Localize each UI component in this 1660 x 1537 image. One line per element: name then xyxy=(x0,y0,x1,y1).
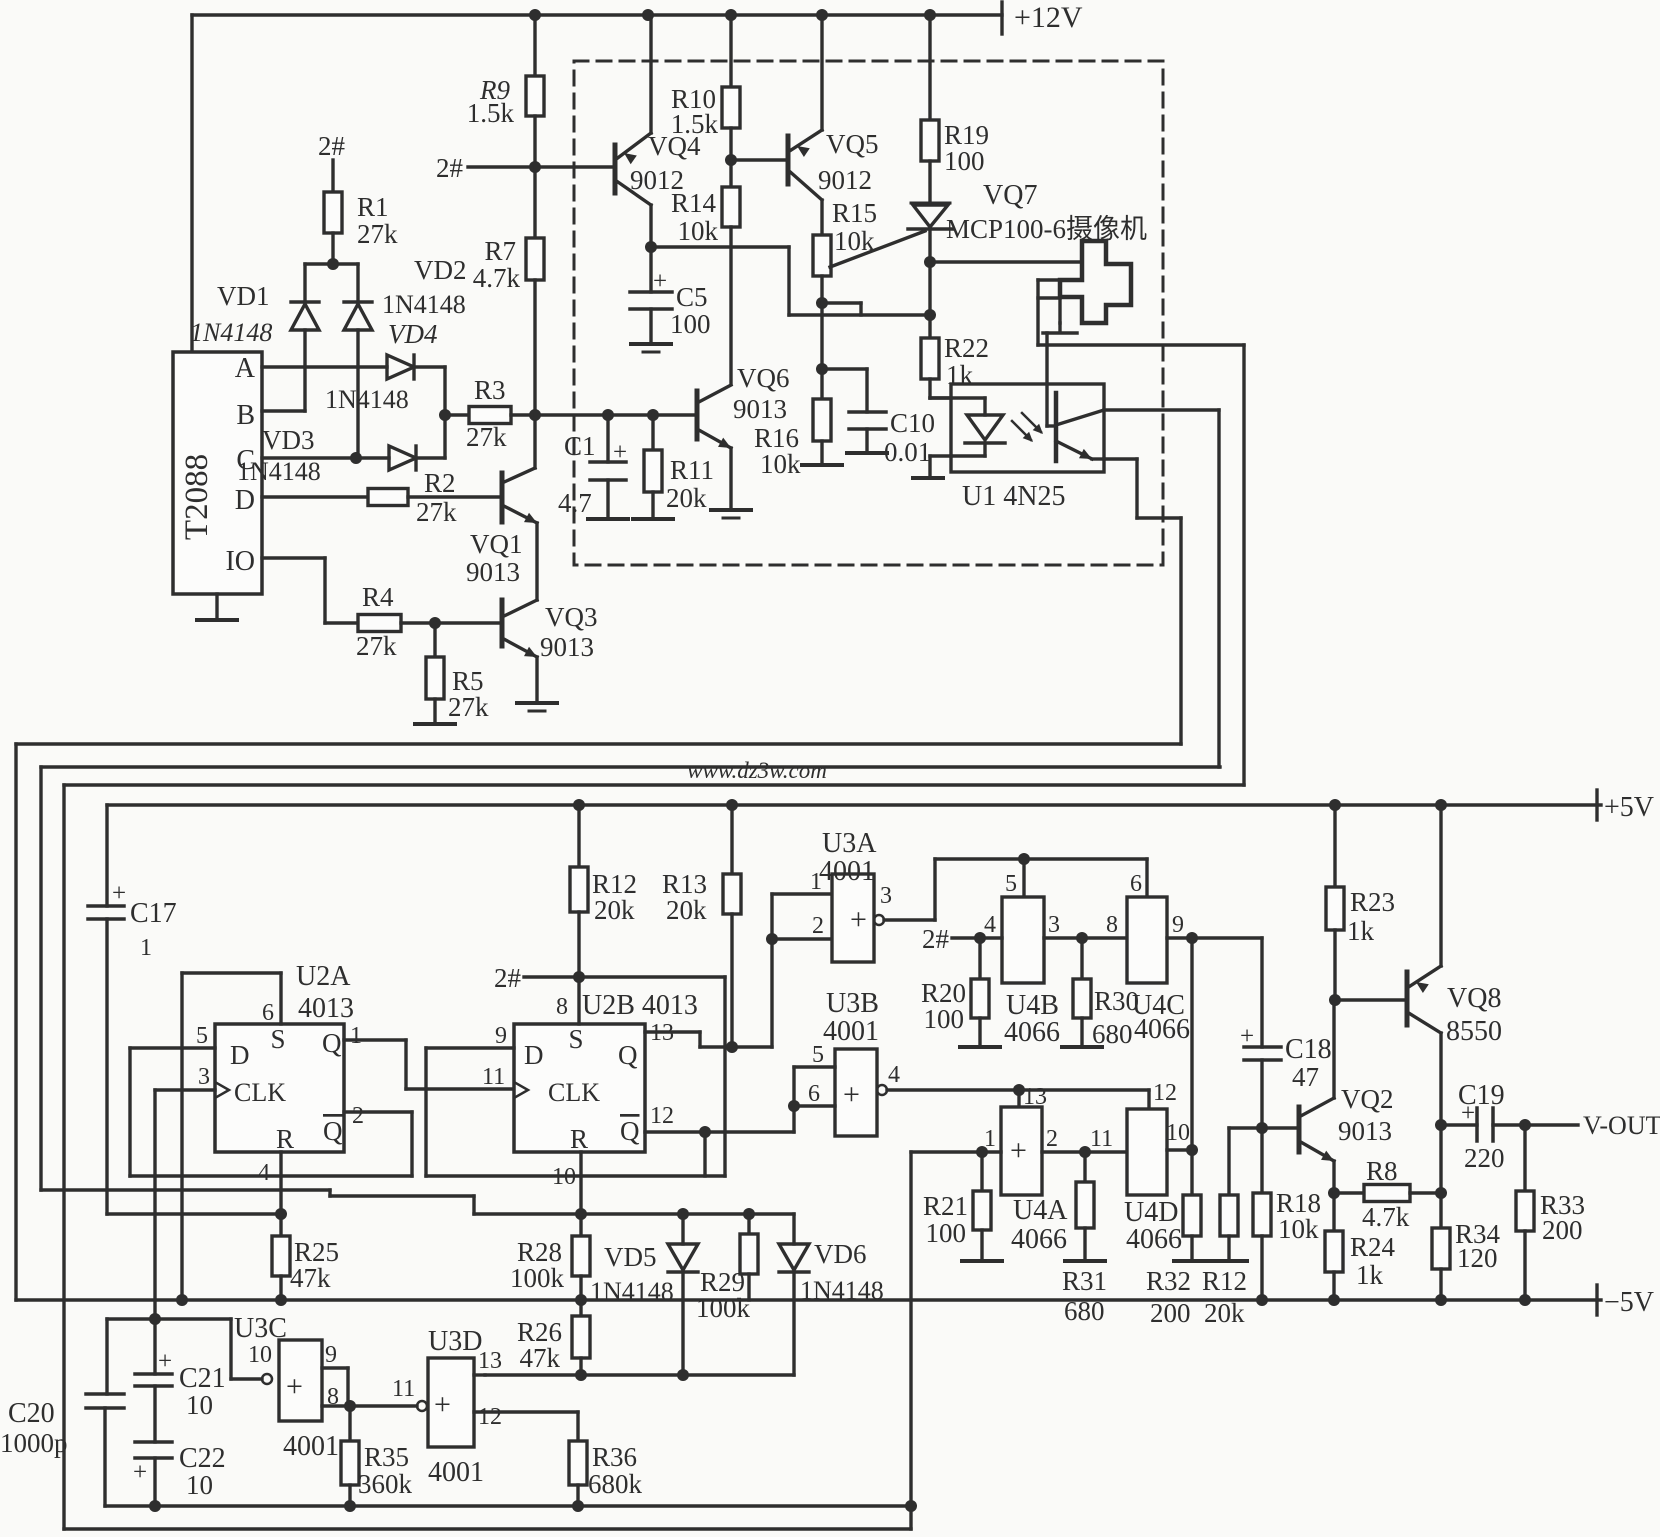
svg-text:+: + xyxy=(613,439,627,466)
wire VQ4 emitter up xyxy=(649,15,652,133)
ground C5 xyxy=(631,309,671,352)
node junction R19 top xyxy=(924,9,936,21)
resistor R5 xyxy=(426,623,489,722)
wire U4A pin1 xyxy=(911,1150,1001,1153)
svg-text:1N4148: 1N4148 xyxy=(325,385,409,414)
svg-text:R12: R12 xyxy=(1202,1266,1247,1296)
svg-text:U3C: U3C xyxy=(234,1313,287,1344)
svg-text:4001: 4001 xyxy=(819,856,875,887)
terminal -5V xyxy=(1597,1285,1654,1318)
svg-text:D: D xyxy=(524,1040,544,1070)
watermark xyxy=(687,758,827,783)
pin 3 label U2A xyxy=(198,1064,210,1090)
wire bottom bus xyxy=(64,1527,911,1530)
transistor VQ1 xyxy=(466,468,537,587)
wire 2# to R1 xyxy=(331,160,334,192)
wire R12 to 2# node xyxy=(577,912,580,977)
diode VD4 xyxy=(325,319,438,414)
svg-text:VQ8: VQ8 xyxy=(1447,983,1501,1014)
node pin10 tap xyxy=(1186,1144,1198,1156)
ground R12b xyxy=(1211,1236,1247,1261)
svg-text:4: 4 xyxy=(258,1160,270,1186)
node S feedback bus xyxy=(176,1294,188,1306)
svg-text:27k: 27k xyxy=(416,497,457,527)
svg-text:D: D xyxy=(230,1040,250,1070)
node R28 bus xyxy=(575,1294,587,1306)
pin D label xyxy=(235,485,255,516)
node feed gnd xyxy=(905,1500,917,1512)
node 2# U2B xyxy=(573,971,585,983)
wire D feedback drop xyxy=(128,1048,131,1176)
svg-text:VQ7: VQ7 xyxy=(983,180,1037,211)
resistor R18 xyxy=(1253,1188,1321,1244)
wire U4A feed riser xyxy=(909,1152,912,1529)
svg-text:10k: 10k xyxy=(678,216,719,246)
svg-text:3: 3 xyxy=(1048,912,1060,938)
capacitor C19 xyxy=(1441,1080,1525,1173)
svg-text:9013: 9013 xyxy=(540,632,594,662)
svg-text:S: S xyxy=(568,1024,583,1054)
resistor R11 xyxy=(644,415,714,513)
transistor VQ4 xyxy=(615,131,701,205)
svg-text:+: + xyxy=(286,1370,303,1403)
capacitor C20 xyxy=(0,1394,124,1458)
wire pin A xyxy=(262,365,387,368)
wire U1 emitter to bus1 xyxy=(1179,518,1182,744)
svg-text:4: 4 xyxy=(984,912,996,938)
svg-text:8: 8 xyxy=(1106,912,1118,938)
svg-text:R2: R2 xyxy=(424,468,456,498)
svg-text:V-OUT: V-OUT xyxy=(1583,1111,1660,1140)
wire C20 bottom xyxy=(103,1408,106,1506)
svg-text:Q: Q xyxy=(618,1040,638,1070)
svg-text:2: 2 xyxy=(1046,1126,1058,1152)
wire R29 to bus xyxy=(747,1274,750,1300)
ic U2B flip-flop xyxy=(514,1024,645,1154)
resistor R14 xyxy=(671,160,740,246)
svg-text:+5V: +5V xyxy=(1604,792,1654,823)
wire camera to bus3 xyxy=(1242,345,1245,785)
pin 10 label U4D xyxy=(1166,1120,1190,1146)
wire to VQ5 base xyxy=(731,158,788,161)
resistor R10 xyxy=(671,15,740,139)
node R10-R14-VQ5base xyxy=(725,128,737,166)
svg-text:5: 5 xyxy=(196,1023,208,1049)
resistor R22 xyxy=(921,333,989,390)
svg-text:4066: 4066 xyxy=(1004,1017,1060,1048)
node R35 gnd line xyxy=(344,1500,356,1512)
wire R18 to bus xyxy=(1260,1236,1263,1300)
capacitor C1 xyxy=(558,415,627,518)
svg-text:1N4148: 1N4148 xyxy=(237,457,321,486)
diode VD2 xyxy=(344,255,467,330)
svg-text:200: 200 xyxy=(1150,1298,1191,1328)
svg-text:U2A: U2A xyxy=(296,961,351,992)
node R31 top xyxy=(1079,1146,1091,1158)
node R12 top xyxy=(573,799,585,811)
pin 12 label U3D xyxy=(478,1404,502,1430)
led U1 internal xyxy=(930,398,1005,456)
wire R1 bottom xyxy=(331,233,334,264)
node pin9 xyxy=(1186,932,1198,944)
svg-text:U3A: U3A xyxy=(822,828,877,859)
resistor R34 xyxy=(1432,1219,1501,1273)
svg-text:VD3: VD3 xyxy=(262,425,315,455)
ic T2088 xyxy=(173,352,262,594)
svg-text:2: 2 xyxy=(352,1103,364,1129)
wire U2B S riser xyxy=(577,977,580,1024)
wire C18 bottom xyxy=(1260,1060,1263,1128)
svg-text:+: + xyxy=(653,268,667,295)
wire Qbar12 to U3B xyxy=(792,1106,795,1132)
node VQ8 emitter top xyxy=(1435,799,1447,811)
svg-text:6: 6 xyxy=(262,1000,274,1026)
wire VQ5 collector xyxy=(820,200,823,235)
svg-text:R15: R15 xyxy=(832,198,877,228)
node R4-R5 xyxy=(429,617,441,629)
ground R32 xyxy=(1174,1236,1210,1261)
svg-text:2: 2 xyxy=(812,913,824,939)
resistor R31 xyxy=(1062,1152,1107,1326)
svg-text:4066: 4066 xyxy=(1134,1014,1190,1045)
svg-text:R7: R7 xyxy=(484,236,516,266)
svg-text:C1: C1 xyxy=(564,431,596,461)
resistor R2 xyxy=(368,468,457,527)
terminal +12V xyxy=(1002,1,1083,34)
capacitor C18 xyxy=(1240,1023,1332,1092)
wire VD5 bottom xyxy=(681,1272,684,1375)
svg-text:R: R xyxy=(570,1124,588,1154)
svg-text:R21: R21 xyxy=(923,1191,968,1221)
wire U3B out xyxy=(887,1088,1149,1091)
wire VQ1 collector xyxy=(533,415,536,468)
wire Qbar-D feedback xyxy=(130,1174,412,1177)
ground R16 xyxy=(802,441,842,465)
svg-text:10: 10 xyxy=(1166,1120,1190,1146)
pin 1 label U3A xyxy=(810,869,822,895)
wire R3 to VQ6 base xyxy=(535,413,697,416)
pin 1 label U4A xyxy=(984,1126,996,1152)
node R23 top xyxy=(1329,799,1341,811)
node VD5 top xyxy=(677,1208,689,1220)
phototransistor U1 xyxy=(1047,393,1104,461)
dashed control box xyxy=(574,61,1163,565)
svg-text:2#: 2# xyxy=(494,963,522,993)
wire pin C xyxy=(262,456,389,459)
node R26 bottom xyxy=(575,1369,587,1381)
wire U3A out xyxy=(884,859,935,920)
pin 1 label U2A xyxy=(350,1023,362,1049)
wire VQ8 collector xyxy=(1439,1033,1442,1125)
wire R7 to R3 node xyxy=(533,280,536,415)
node R8 left xyxy=(1328,1187,1340,1199)
wire U4B pin4 xyxy=(980,936,1002,939)
svg-text:VD2: VD2 xyxy=(414,255,467,285)
switch U4A xyxy=(1001,1107,1068,1255)
node C19 left xyxy=(1435,1119,1447,1131)
svg-text:4066: 4066 xyxy=(1126,1224,1182,1255)
svg-text:+: + xyxy=(434,1388,451,1421)
ground R5 xyxy=(415,699,455,724)
svg-text:C17: C17 xyxy=(130,898,177,929)
ic U2A flip-flop xyxy=(215,961,354,1154)
wire +12V top rail xyxy=(192,13,1002,16)
svg-text:1k: 1k xyxy=(1356,1260,1384,1290)
pin 10 label U2B xyxy=(552,1164,576,1190)
svg-text:2#: 2# xyxy=(318,131,346,161)
node VD5 bottom xyxy=(677,1369,689,1381)
wire R9 to 2# node xyxy=(533,116,536,167)
switch U4C xyxy=(1127,859,1190,1045)
node VQ4 collector xyxy=(645,241,657,253)
resistor R19 xyxy=(921,15,989,176)
wire R33 to bus xyxy=(1523,1231,1526,1300)
wire to R22 xyxy=(928,315,931,338)
capacitor C10 xyxy=(849,369,935,467)
wire bus1 horizontal xyxy=(16,742,1181,745)
gate U3B xyxy=(823,988,887,1136)
svg-text:1N4148: 1N4148 xyxy=(190,318,272,347)
wire R35 bottom xyxy=(348,1485,351,1506)
svg-text:4001: 4001 xyxy=(283,1431,339,1462)
node junction VQ4 emitter column xyxy=(642,9,654,21)
resistor R12b xyxy=(1202,1128,1247,1328)
svg-text:C19: C19 xyxy=(1458,1080,1505,1111)
svg-text:20k: 20k xyxy=(594,895,635,925)
gate U3A xyxy=(819,828,884,962)
svg-text:VQ5: VQ5 xyxy=(826,129,879,159)
pin 5 label U4B xyxy=(1005,871,1017,897)
svg-text:R36: R36 xyxy=(592,1442,637,1472)
resistor R12 pullup xyxy=(570,805,637,925)
svg-text:9013: 9013 xyxy=(733,394,787,424)
wire U1 collector out xyxy=(1104,408,1219,411)
wire U2B D input xyxy=(426,1046,514,1049)
wire +5V to C17 xyxy=(105,805,108,906)
node VQ7-camera xyxy=(924,256,936,268)
svg-text:100: 100 xyxy=(944,146,985,176)
wire osc ground line xyxy=(105,1504,911,1507)
svg-text:U3D: U3D xyxy=(428,1326,482,1357)
wire U4A pin2 out xyxy=(1042,1150,1127,1153)
pin 13 label U4A xyxy=(1023,1084,1047,1110)
resistor R9 xyxy=(467,15,544,128)
wire R15 col down xyxy=(820,303,823,369)
ground R21 xyxy=(962,1230,1002,1261)
pin 3 label U4B xyxy=(1048,912,1060,938)
wire U3C out to U3D xyxy=(348,1404,417,1407)
resistor R3 xyxy=(445,375,535,452)
wire collector feed right xyxy=(651,247,930,315)
svg-text:−5V: −5V xyxy=(1604,1287,1654,1318)
svg-text:27k: 27k xyxy=(357,219,398,249)
svg-text:2#: 2# xyxy=(436,153,464,183)
svg-text:100k: 100k xyxy=(510,1263,565,1293)
pin 12 label U2B xyxy=(650,1103,674,1129)
wire left drop from rail to T2088 xyxy=(190,15,193,352)
svg-text:+: + xyxy=(133,1459,147,1486)
svg-text:C10: C10 xyxy=(890,408,935,438)
svg-text:13: 13 xyxy=(1023,1084,1047,1110)
node U4B pin5 xyxy=(1018,853,1030,865)
svg-text:Q: Q xyxy=(620,1116,640,1146)
svg-text:R1: R1 xyxy=(357,192,389,222)
wire VQ2 emitter xyxy=(1332,1161,1335,1193)
transistor VQ6 xyxy=(697,363,790,448)
wire R19 to VQ7 xyxy=(928,161,931,203)
wire R36 bottom xyxy=(576,1485,579,1506)
pin 9 label U2B xyxy=(495,1023,507,1049)
wire CLK drop to osc xyxy=(153,1090,156,1319)
transistor VQ3 xyxy=(502,600,598,662)
svg-text:+: + xyxy=(112,880,126,907)
pin 11 label U4D xyxy=(1090,1126,1113,1152)
pin 4 label U3B xyxy=(888,1062,900,1088)
svg-text:10k: 10k xyxy=(1278,1214,1319,1244)
wire to camera xyxy=(930,260,1082,263)
node R18 bus xyxy=(1256,1294,1268,1306)
ground U1 cathode xyxy=(913,476,943,480)
pin 6 label U3B xyxy=(808,1081,820,1107)
pin 9 label U3C xyxy=(325,1342,337,1368)
resistor R1 xyxy=(324,192,398,249)
svg-text:9: 9 xyxy=(1172,912,1184,938)
svg-text:47k: 47k xyxy=(520,1343,561,1373)
svg-text:C20: C20 xyxy=(8,1398,55,1429)
pin 6 label U2A xyxy=(262,1000,274,1026)
wire osc top line xyxy=(107,1317,231,1320)
capacitor C5 xyxy=(630,247,711,339)
svg-text:9: 9 xyxy=(495,1023,507,1049)
wire U3D pin13 out xyxy=(474,1373,485,1376)
node U4A control xyxy=(1013,1084,1025,1096)
wire U3A pin1 bracket xyxy=(772,894,832,939)
wire pin IO xyxy=(262,558,358,623)
svg-text:VD4: VD4 xyxy=(388,319,438,349)
resistor R24 xyxy=(1325,1193,1396,1290)
ground R11 xyxy=(633,492,673,519)
svg-text:20k: 20k xyxy=(1204,1298,1245,1328)
svg-text:4013: 4013 xyxy=(298,993,354,1024)
resistor R15 xyxy=(813,198,877,276)
resistor R20 xyxy=(921,938,989,1034)
pin 4 label U2A xyxy=(258,1160,270,1186)
wire camera foot to U1 base xyxy=(1045,333,1048,426)
capacitor C17 xyxy=(88,880,177,961)
ground VQ6 emitter xyxy=(711,448,751,518)
wire R23 bottom xyxy=(1333,930,1336,1000)
wire U4D pin10 out xyxy=(1167,1148,1192,1151)
node C-VD2-VD3 xyxy=(350,452,362,464)
svg-text:A: A xyxy=(235,353,256,384)
label 2# node top xyxy=(318,131,346,161)
svg-text:4.7: 4.7 xyxy=(558,488,592,518)
ground R30 xyxy=(1062,1018,1102,1047)
capacitor C22 xyxy=(133,1386,226,1500)
wire 2# to VQ4 base xyxy=(535,165,615,168)
wire U2A S to -5V xyxy=(182,973,281,1300)
svg-text:R14: R14 xyxy=(671,188,717,218)
node R11 top xyxy=(647,409,659,421)
svg-text:T2088: T2088 xyxy=(179,454,215,540)
wire R2 to VQ1 base xyxy=(408,495,502,498)
svg-text:1.5k: 1.5k xyxy=(467,98,515,128)
svg-text:13: 13 xyxy=(478,1348,502,1374)
camera symbol xyxy=(1038,241,1131,345)
svg-text:+: + xyxy=(1010,1134,1027,1167)
transistor VQ8 xyxy=(1407,966,1502,1047)
wire U2A R pin xyxy=(279,1152,282,1236)
resistor R4 xyxy=(356,582,401,661)
wire -5V rail xyxy=(16,1298,1601,1301)
pin 12 label U4D xyxy=(1153,1080,1177,1106)
svg-text:VQ2: VQ2 xyxy=(1341,1084,1394,1114)
svg-text:27k: 27k xyxy=(466,422,507,452)
wire VQ7 cathode xyxy=(928,229,931,262)
svg-text:R31: R31 xyxy=(1062,1266,1107,1296)
svg-text:12: 12 xyxy=(478,1404,502,1430)
wire R13 bottom xyxy=(730,914,733,1047)
ground VQ3 emitter xyxy=(517,657,557,711)
svg-text:VD6: VD6 xyxy=(814,1239,867,1269)
svg-text:R35: R35 xyxy=(364,1442,409,1472)
wire gate out top line xyxy=(935,857,1147,860)
label 2# U4B xyxy=(922,924,980,954)
wire pin9 drop xyxy=(1190,938,1193,1195)
node R36 gnd xyxy=(572,1500,584,1512)
pin C label xyxy=(236,445,255,476)
node junction R10 top xyxy=(725,9,737,21)
svg-text:9013: 9013 xyxy=(1338,1116,1392,1146)
wire U2B D feedback drop xyxy=(424,1048,427,1176)
svg-text:9012: 9012 xyxy=(818,165,872,195)
svg-text:3: 3 xyxy=(880,883,892,909)
transistor VQ5 xyxy=(788,129,879,200)
resistor R29 xyxy=(696,1214,758,1323)
wire U2B R pin xyxy=(579,1152,582,1236)
transistor VQ2 xyxy=(1299,1084,1394,1161)
svg-text:360k: 360k xyxy=(358,1469,413,1499)
node R35 top xyxy=(344,1400,356,1412)
resistor R28 xyxy=(510,1236,590,1293)
svg-text:VD1: VD1 xyxy=(217,281,270,311)
wire U1 emitter out xyxy=(1104,459,1181,518)
pin 2 label U4A xyxy=(1046,1126,1058,1152)
node R33 bus xyxy=(1519,1294,1531,1306)
terminal +5V xyxy=(1597,790,1654,823)
svg-text:8550: 8550 xyxy=(1446,1016,1502,1047)
svg-text:MCP100-6摄像机: MCP100-6摄像机 xyxy=(946,214,1147,244)
wire VD1 to pin B xyxy=(303,330,306,411)
svg-text:U3B: U3B xyxy=(826,988,879,1019)
wire R14 to VQ6 collector xyxy=(729,227,732,384)
wire U4D control riser xyxy=(1147,1090,1150,1109)
resistor R21 xyxy=(923,1152,991,1248)
wire U2B Q13 out xyxy=(645,1032,772,1047)
svg-text:200: 200 xyxy=(1542,1215,1583,1245)
wire U2A Q out xyxy=(344,1040,514,1089)
svg-text:C18: C18 xyxy=(1285,1034,1332,1065)
wire D-feedback line U2B xyxy=(426,1174,725,1177)
svg-text:+12V: +12V xyxy=(1014,1,1083,34)
svg-text:1: 1 xyxy=(350,1023,362,1049)
pin 5 label U3B xyxy=(812,1042,824,1068)
wire U2A D input xyxy=(130,1046,215,1049)
resistor R16 xyxy=(754,369,831,479)
pin 2 label U3A xyxy=(812,913,824,939)
wire bus2 left drop xyxy=(39,767,42,1190)
svg-text:U4A: U4A xyxy=(1013,1195,1068,1226)
